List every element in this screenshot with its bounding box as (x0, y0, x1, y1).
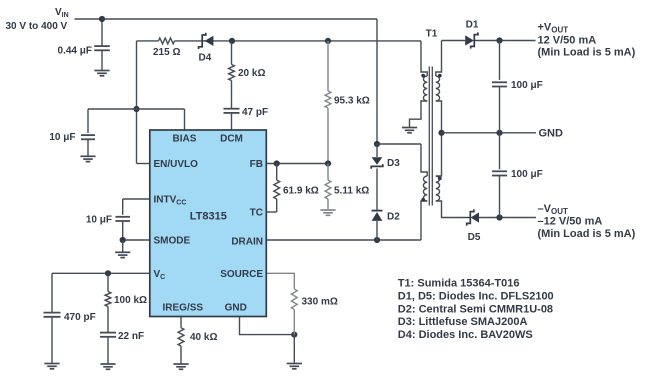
svg-text:61.9 kΩ: 61.9 kΩ (283, 186, 319, 197)
svg-text:100 kΩ: 100 kΩ (114, 295, 147, 306)
svg-text:100 μF: 100 μF (511, 169, 543, 180)
svg-text:EN/UVLO: EN/UVLO (154, 159, 199, 170)
svg-text:D5: D5 (468, 232, 481, 243)
svg-text:40 kΩ: 40 kΩ (190, 332, 217, 343)
svg-text:D1, D5: Diodes Inc. DFLS2100: D1, D5: Diodes Inc. DFLS2100 (398, 290, 554, 302)
svg-text:D4: D4 (199, 53, 212, 64)
svg-text:12 V/50 mA: 12 V/50 mA (538, 34, 597, 46)
svg-text:22 nF: 22 nF (118, 331, 144, 342)
svg-text:D4: Diodes Inc. BAV20WS: D4: Diodes Inc. BAV20WS (398, 329, 533, 341)
svg-text:95.3 kΩ: 95.3 kΩ (334, 96, 370, 107)
svg-text:47 pF: 47 pF (242, 107, 268, 118)
svg-text:GND: GND (225, 303, 247, 314)
svg-text:–12 V/50 mA: –12 V/50 mA (538, 216, 603, 228)
svg-text:GND: GND (539, 128, 564, 140)
svg-text:LT8315: LT8315 (190, 211, 227, 223)
svg-text:0.44 μF: 0.44 μF (58, 46, 92, 57)
svg-text:(Min Load is 5 mA): (Min Load is 5 mA) (538, 228, 636, 240)
svg-text:T1: T1 (426, 29, 438, 40)
svg-text:FB: FB (250, 159, 263, 170)
svg-text:100 μF: 100 μF (511, 80, 543, 91)
svg-text:330 mΩ: 330 mΩ (302, 296, 338, 307)
svg-text:T1: Sumida 15364-T016: T1: Sumida 15364-T016 (398, 278, 520, 290)
svg-text:470 pF: 470 pF (64, 312, 96, 323)
svg-text:20 kΩ: 20 kΩ (238, 68, 265, 79)
svg-text:DCM: DCM (220, 134, 243, 145)
svg-text:D1: D1 (466, 20, 479, 31)
svg-text:D2: D2 (387, 211, 400, 222)
svg-text:TC: TC (250, 208, 263, 219)
svg-text:(Min Load is 5 mA): (Min Load is 5 mA) (538, 47, 636, 59)
svg-text:D3: D3 (387, 158, 400, 169)
svg-text:5.11 kΩ: 5.11 kΩ (334, 186, 369, 197)
svg-text:10 μF: 10 μF (49, 132, 75, 143)
svg-text:DRAIN: DRAIN (231, 237, 263, 248)
svg-text:SMODE: SMODE (154, 236, 191, 247)
svg-text:D2: Central Semi CMMR1U-08: D2: Central Semi CMMR1U-08 (398, 303, 553, 315)
svg-text:IREG/SS: IREG/SS (163, 303, 204, 314)
svg-text:10 μF: 10 μF (86, 215, 112, 226)
svg-text:D3: Littlefuse SMAJ200A: D3: Littlefuse SMAJ200A (398, 316, 528, 328)
svg-text:30 V to 400 V: 30 V to 400 V (6, 21, 68, 32)
svg-text:BIAS: BIAS (173, 134, 197, 145)
svg-text:215 Ω: 215 Ω (153, 47, 180, 58)
svg-text:SOURCE: SOURCE (220, 269, 263, 280)
